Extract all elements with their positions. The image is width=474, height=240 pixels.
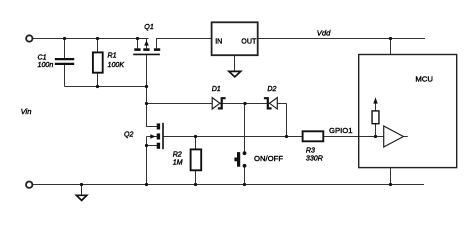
svg-text:D1: D1 (212, 85, 221, 93)
svg-text:MCU: MCU (415, 74, 433, 83)
svg-text:Vin: Vin (21, 107, 32, 116)
svg-text:1M: 1M (173, 158, 183, 166)
svg-text:GPIO1: GPIO1 (329, 126, 353, 135)
svg-text:100n: 100n (38, 61, 54, 69)
svg-text:OUT: OUT (241, 37, 257, 45)
svg-text:100K: 100K (108, 61, 125, 69)
svg-text:D2: D2 (267, 85, 276, 93)
svg-text:IN: IN (215, 37, 222, 45)
svg-text:R2: R2 (173, 150, 182, 158)
svg-text:Q2: Q2 (124, 131, 134, 139)
svg-text:R3: R3 (306, 146, 315, 154)
svg-text:Vdd: Vdd (317, 28, 331, 37)
svg-text:R1: R1 (108, 52, 117, 60)
svg-text:330R: 330R (306, 155, 323, 163)
svg-text:ON/OFF: ON/OFF (254, 154, 283, 163)
svg-text:Q1: Q1 (144, 23, 154, 31)
